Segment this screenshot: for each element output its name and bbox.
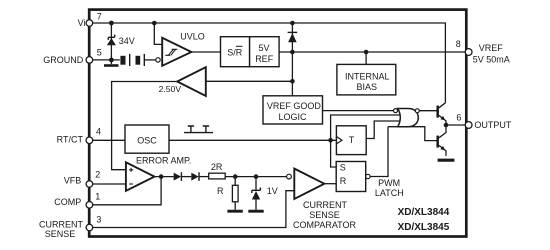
latch output bubble [366, 174, 370, 178]
zener diode 1V [248, 177, 263, 212]
wire T output to gate [366, 121, 402, 139]
svg-text:T: T [349, 135, 355, 145]
svg-text:SENSE: SENSE [45, 229, 76, 239]
capacitor C2 [136, 54, 156, 66]
pin 7 [86, 20, 93, 27]
svg-text:CURRENT: CURRENT [39, 219, 84, 229]
wire diode branch Vi to VREF rail and down to VREF GOOD LOGIC [291, 23, 293, 96]
wire 2.50V output to error amp + input [112, 82, 178, 170]
transistor Q1 upper [438, 103, 446, 125]
UVLO inverting input bubble [156, 58, 160, 62]
transistor Q2 lower [438, 125, 446, 156]
svg-text:COMP: COMP [54, 197, 81, 207]
svg-text:INTERNAL: INTERNAL [345, 72, 390, 82]
svg-text:REF: REF [255, 54, 274, 64]
svg-text:R: R [217, 186, 224, 196]
clock pulse symbol [184, 126, 213, 133]
wire Vi rail from pin7 to output transistor collector drop [93, 23, 446, 103]
svg-text:BIAS: BIAS [357, 82, 378, 92]
wire VREF rail to pin 8 [279, 51, 465, 53]
svg-text:LOGIC: LOGIC [279, 112, 308, 122]
svg-text:VREF: VREF [479, 43, 504, 53]
svg-text:S: S [340, 163, 346, 173]
svg-text:Vi: Vi [78, 18, 86, 28]
ground under Q2 [438, 159, 455, 162]
gate output bubble [415, 109, 419, 113]
comparator CURRENT SENSE [287, 174, 292, 179]
gate (output NOR) [398, 109, 419, 127]
wire output node to pin 6 [446, 124, 465, 126]
pin 5 [86, 57, 93, 64]
resistor R [227, 177, 242, 212]
svg-text:XD/XL3845: XD/XL3845 [398, 222, 450, 233]
svg-text:PWM: PWM [378, 178, 400, 188]
wire clock riser to gate and latch S input [331, 115, 402, 167]
svg-text:6: 6 [456, 113, 461, 123]
svg-text:8: 8 [456, 39, 461, 49]
wire comparator output to latch R [324, 183, 336, 185]
svg-text:S/R: S/R [227, 47, 243, 57]
block INTERNAL BIAS [337, 64, 396, 95]
svg-text:OUTPUT: OUTPUT [474, 120, 512, 130]
pin 6 [465, 122, 472, 129]
svg-text:RT/CT: RT/CT [57, 134, 84, 144]
svg-text:UVLO: UVLO [180, 31, 205, 41]
block S/R [221, 37, 250, 67]
wire 2.50V buffer input from VREF branch [206, 80, 293, 82]
svg-text:2.50V: 2.50V [159, 84, 182, 94]
wire OSC output to T flip-flop [169, 139, 336, 141]
wire VREF GOOD LOGIC to gate input bubble [323, 110, 394, 112]
resistor 2R [209, 173, 226, 179]
wire internal bias to VREF rail [365, 52, 367, 64]
svg-text:34V: 34V [119, 36, 135, 46]
pin 4 [86, 137, 93, 144]
wire latch output to gate bottom and lower transistor base [370, 127, 438, 177]
svg-text:SENSE: SENSE [309, 210, 340, 220]
latch PWM LATCH S R [336, 162, 366, 192]
diode D2 [191, 172, 208, 181]
svg-text:5V 50mA: 5V 50mA [473, 54, 510, 64]
svg-text:5: 5 [97, 48, 102, 58]
svg-text:OSC: OSC [137, 135, 157, 145]
buffer 2.50V [177, 67, 206, 96]
pin 2 [86, 181, 93, 188]
block 5V REF [250, 37, 280, 67]
svg-text:1V: 1V [267, 186, 278, 196]
pin 3 [86, 224, 93, 231]
ground symbol under zener [104, 60, 119, 66]
block OSC [125, 125, 169, 153]
wire gate output to upper transistor base [419, 110, 437, 112]
wire EA output and COMP pin branch [155, 176, 174, 178]
zener diode 34V [107, 35, 116, 46]
diode to Vi [288, 32, 298, 42]
svg-text:CURRENT: CURRENT [303, 200, 348, 210]
svg-text:2: 2 [95, 169, 100, 179]
wire Vi to UVLO upper input [154, 23, 162, 44]
svg-text:COMPARATOR: COMPARATOR [293, 220, 357, 230]
capacitor C1 [120, 54, 129, 66]
IC outer border [89, 10, 466, 237]
op-amp ERROR AMP [93, 183, 126, 185]
svg-text:XD/XL3844: XD/XL3844 [398, 207, 450, 218]
svg-text:VREF GOOD: VREF GOOD [267, 101, 322, 111]
svg-text:3: 3 [96, 215, 101, 225]
svg-text:R: R [340, 176, 347, 186]
svg-text:LATCH: LATCH [375, 188, 404, 198]
svg-text:1: 1 [95, 192, 100, 202]
wire UVLO output to S/R block [191, 51, 220, 53]
pin 8 [465, 49, 472, 56]
gate input bubble [394, 109, 398, 113]
svg-text:ERROR AMP.: ERROR AMP. [136, 156, 191, 166]
wire pin3 CURRENT SENSE to comparator [93, 191, 295, 228]
block VREF GOOD LOGIC [263, 96, 323, 124]
hysteresis symbol [165, 49, 177, 55]
svg-text:GROUND: GROUND [43, 55, 83, 65]
pin 1 [86, 202, 93, 209]
flip-flop T [336, 126, 366, 155]
svg-text:2R: 2R [211, 162, 223, 172]
comparator UVLO [162, 38, 191, 66]
pin circles [86, 20, 472, 231]
wire GROUND from pin5 to cap [93, 59, 120, 61]
wire 2R to comparator [225, 176, 286, 178]
wire zener branch Vi to ground rail [110, 23, 112, 60]
svg-text:VFB: VFB [64, 176, 82, 186]
svg-text:7: 7 [97, 11, 102, 21]
wire pin4 RT/CT to OSC [93, 139, 125, 141]
svg-text:4: 4 [96, 127, 101, 137]
diode D1 [174, 172, 192, 181]
svg-text:5V: 5V [259, 43, 270, 53]
